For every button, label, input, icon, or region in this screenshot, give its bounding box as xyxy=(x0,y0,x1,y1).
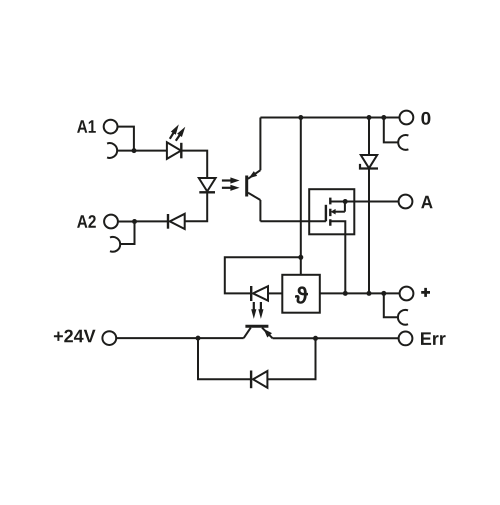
wire drain to terminal A xyxy=(345,201,398,203)
wire top rail xyxy=(260,117,399,119)
LED cathode bar xyxy=(180,143,182,159)
MOSFET T1 substrate arrow xyxy=(331,202,345,215)
wire Q1 collector to top rail xyxy=(259,118,261,171)
wire gate line from Q1 to MOSFET xyxy=(260,220,326,222)
wire D1 to A2 node xyxy=(135,220,168,222)
feedback LED light arrow 2 xyxy=(258,302,263,319)
wire opto LED cathode down to A2 line xyxy=(185,192,208,221)
wire socket A2 up to node xyxy=(120,222,135,245)
zener Z1 cathode bar with tick xyxy=(360,164,378,169)
terminal A1 xyxy=(104,120,118,134)
socket contact plus xyxy=(398,310,408,325)
feedback LED (cathode left) xyxy=(253,286,268,301)
socket contact A1 xyxy=(107,143,117,158)
MOSFET T1 gate bar xyxy=(325,205,327,222)
phototransistor Q2 base bar xyxy=(245,325,268,328)
wire Q2 emitter to terminal Err xyxy=(273,337,399,339)
junction Err wire at bypass xyxy=(313,336,318,341)
wire branch from control node to feedback LED xyxy=(225,257,301,293)
junction control vertical xyxy=(298,255,303,260)
diode D1 in A2 path (cathode left) xyxy=(170,214,185,229)
wire bypass loop right xyxy=(267,338,315,379)
optocoupler LED (pointing down) xyxy=(199,178,216,191)
wire to socket 0 xyxy=(384,118,399,143)
junction drain node xyxy=(343,199,348,204)
socket contact 0 xyxy=(398,135,408,150)
optocoupler light arrow 2 xyxy=(222,185,240,191)
MOSFET T1 drain lead xyxy=(330,201,345,203)
terminal +24V xyxy=(102,331,116,345)
wire LED to corner down xyxy=(181,151,207,178)
wire node to LED xyxy=(134,150,167,152)
terminal A2 xyxy=(104,215,118,229)
MOSFET T1 channel segments xyxy=(329,198,331,226)
junction +24V at bypass xyxy=(196,336,201,341)
feedback LED light arrow 1 xyxy=(251,302,256,319)
wire A2 terminal to node xyxy=(118,221,135,223)
junction plus rail at source xyxy=(343,291,348,296)
thermal sensor symbol xyxy=(295,286,308,303)
label +24V xyxy=(54,330,96,343)
LED indicator diode (anode left) xyxy=(167,142,181,159)
label A2 xyxy=(77,215,96,228)
LED light arrow 1 xyxy=(167,123,181,140)
bypass diode D2 (cathode left) xyxy=(253,371,267,388)
label A xyxy=(421,196,432,209)
terminal A xyxy=(399,195,413,209)
zener Z1 triangle xyxy=(361,155,377,168)
junction node A1 xyxy=(132,148,137,153)
phototransistor Q1 emitter lead xyxy=(248,193,260,200)
wire bypass loop left xyxy=(198,338,251,379)
label plus xyxy=(421,288,430,297)
LED light arrow 2 xyxy=(173,125,187,142)
optocoupler LED cathode bar xyxy=(199,191,215,193)
label A1 xyxy=(77,120,96,133)
phototransistor Q2 arrow xyxy=(261,327,272,338)
junction plus rail at zener xyxy=(367,291,372,296)
junction top rail at zener xyxy=(367,115,372,120)
phototransistor Q2 emitter lead xyxy=(262,328,273,339)
wire socket A1 to node xyxy=(117,150,134,152)
optocoupler light arrow 1 xyxy=(222,177,240,183)
terminal 0 xyxy=(400,111,414,125)
MOSFET T1 box xyxy=(309,189,354,234)
terminal plus xyxy=(400,287,414,301)
wire zener to plus rail xyxy=(368,169,370,294)
wire plus rail xyxy=(320,292,400,294)
wire control vertical (top rail to thermal box) xyxy=(300,118,302,275)
terminal Err xyxy=(399,332,413,346)
label Err xyxy=(421,332,446,345)
MOSFET T1 source lead xyxy=(330,221,345,293)
phototransistor Q1 base bar xyxy=(245,176,248,197)
socket contact A2 xyxy=(110,237,120,252)
bypass diode D2 cathode bar xyxy=(250,371,252,389)
wire to socket plus xyxy=(384,293,398,317)
feedback LED cathode bar xyxy=(250,286,252,301)
wire +24V to transistor Q2 xyxy=(116,337,243,339)
junction top rail at gate line xyxy=(298,115,303,120)
phototransistor Q1 arrow xyxy=(247,171,257,181)
zener diode Z1 (top rail to plus rail) xyxy=(368,118,370,156)
junction top rail at socket 0 xyxy=(381,115,386,120)
wire Q1 emitter down xyxy=(259,200,261,221)
wire LED to thermal box xyxy=(268,292,282,294)
junction plus rail at socket xyxy=(381,291,386,296)
phototransistor Q2 collector lead xyxy=(244,328,251,339)
phototransistor Q1 collector lead xyxy=(248,170,260,179)
wire A1 terminal to node xyxy=(118,127,134,150)
label 0 xyxy=(421,112,430,125)
junction node A2 xyxy=(132,219,137,224)
diode D1 cathode bar xyxy=(167,214,169,229)
thermal sensor box xyxy=(282,275,320,313)
